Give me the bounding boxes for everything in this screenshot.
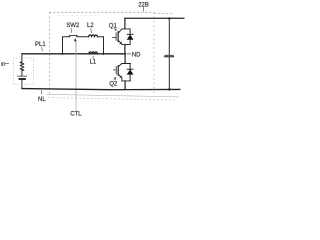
label NL lead tick bbox=[41, 91, 43, 95]
label ID dash bbox=[5, 63, 9, 65]
diode D2 triangle bbox=[127, 69, 134, 74]
svg-text:NL: NL bbox=[38, 97, 46, 103]
label L2 lead tick bbox=[90, 28, 93, 33]
battery long plate bbox=[18, 75, 27, 77]
svg-text:SW2: SW2 bbox=[66, 23, 80, 29]
wire: Q2 collector stub from ND bbox=[124, 54, 126, 64]
diode D1 cathode bar bbox=[127, 33, 133, 35]
node junction ND bbox=[124, 53, 126, 55]
svg-text:Q2: Q2 bbox=[109, 81, 118, 87]
wire: battery to bottom rail bbox=[21, 80, 23, 89]
transistor Q2 gate bar bbox=[115, 67, 117, 75]
wire: top branch left segment bbox=[63, 36, 70, 38]
diode D2 cathode bar bbox=[127, 68, 133, 70]
label Q1 lead arrow bbox=[114, 28, 116, 31]
dotted box around source bbox=[14, 58, 34, 85]
svg-text:ND: ND bbox=[132, 53, 141, 59]
transistor Q2 bottom bar bbox=[122, 80, 131, 82]
transistor Q1 top bar bbox=[122, 28, 131, 30]
diode D2 vertical bbox=[129, 64, 131, 81]
wire: top branch right segment bbox=[97, 36, 103, 38]
capacitor top plate bbox=[165, 54, 174, 56]
dashed box 22B left edge bbox=[49, 12, 51, 94]
transistor Q1 collector lead bbox=[119, 29, 122, 33]
wire: between resistor and battery bbox=[21, 71, 23, 76]
dashed box 22B right edge bbox=[153, 12, 155, 94]
wire: Q1 emitter stub to ND bbox=[124, 44, 126, 53]
diode D1 triangle bbox=[127, 35, 134, 40]
dashed box outer bottom edge bbox=[48, 98, 175, 101]
transistor Q2 top bar bbox=[122, 63, 131, 65]
svg-text:L1: L1 bbox=[90, 60, 97, 66]
battery short plate bbox=[19, 78, 25, 80]
diode D1 vertical bbox=[129, 29, 131, 45]
wire: bottom rail NL bbox=[22, 89, 180, 90]
wire: Q2 emitter path bbox=[121, 78, 123, 81]
resistor (source internal) bbox=[20, 62, 24, 71]
inductor L2 bbox=[89, 35, 98, 37]
node junction left riser bbox=[61, 53, 63, 55]
svg-text:CTL: CTL bbox=[70, 111, 82, 117]
dashed box 22B bottom edge bbox=[47, 94, 180, 97]
wire: top rail bbox=[125, 17, 184, 19]
svg-text:ID: ID bbox=[1, 61, 6, 67]
wire: capacitor lower bbox=[168, 57, 170, 89]
wire: Q2 emitter stub to bottom rail bbox=[124, 81, 126, 89]
label ND dash bbox=[127, 53, 131, 55]
svg-text:PL1: PL1 bbox=[35, 42, 46, 48]
wire: capacitor upper bbox=[168, 18, 170, 55]
label Q2 lead arrow bbox=[114, 78, 116, 81]
svg-text:Q1: Q1 bbox=[109, 23, 118, 29]
dashed box 22B top edge right extension bbox=[155, 12, 174, 14]
transistor Q2 gate lead bbox=[113, 69, 115, 71]
transistor Q1 emitter lead with arrow bbox=[119, 41, 122, 45]
inductor L1 bbox=[89, 52, 98, 54]
node junction capacitor bottom bbox=[168, 88, 170, 90]
node junction capacitor top bbox=[168, 17, 170, 19]
dashed box 22B top edge bbox=[50, 11, 155, 13]
transistor Q2 collector lead bbox=[119, 64, 122, 67]
switch SW2 blade bbox=[70, 34, 78, 36]
transistor Q1 gate bar bbox=[115, 33, 117, 41]
transistor Q1 bottom bar bbox=[122, 43, 131, 45]
control arrow at SW2 bbox=[74, 38, 77, 41]
transistor Q2 body bar bbox=[117, 66, 119, 76]
label 22B lead line bbox=[143, 7, 145, 11]
label L1 lead tick bbox=[92, 56, 94, 59]
transistor Q2 emitter lead with arrow bbox=[119, 74, 122, 78]
label SW2 lead tick bbox=[70, 28, 73, 32]
dashed box 22B top edge echo bbox=[58, 14, 100, 16]
switch SW2 right contact bbox=[76, 35, 78, 37]
wire control line lower part bbox=[75, 54, 77, 110]
transistor Q1 body bar bbox=[117, 32, 119, 42]
transistor Q1 gate lead bbox=[112, 36, 115, 38]
control line CTL to SW2 bbox=[75, 41, 77, 54]
wire: source branch vertical top bbox=[21, 54, 23, 62]
switch SW2 left contact bbox=[69, 35, 71, 37]
wire: Q1 collector stub bbox=[124, 18, 126, 29]
label PL1 lead tick bbox=[41, 47, 44, 50]
wire: main node ND horizontal bbox=[22, 53, 125, 55]
node junction right riser bbox=[102, 53, 104, 55]
capacitor bottom plate bbox=[164, 56, 173, 58]
wire: left riser of parallel branch bbox=[62, 37, 64, 54]
wire: right riser of parallel branch bbox=[103, 37, 105, 54]
wire: top branch middle segment bbox=[77, 36, 89, 38]
